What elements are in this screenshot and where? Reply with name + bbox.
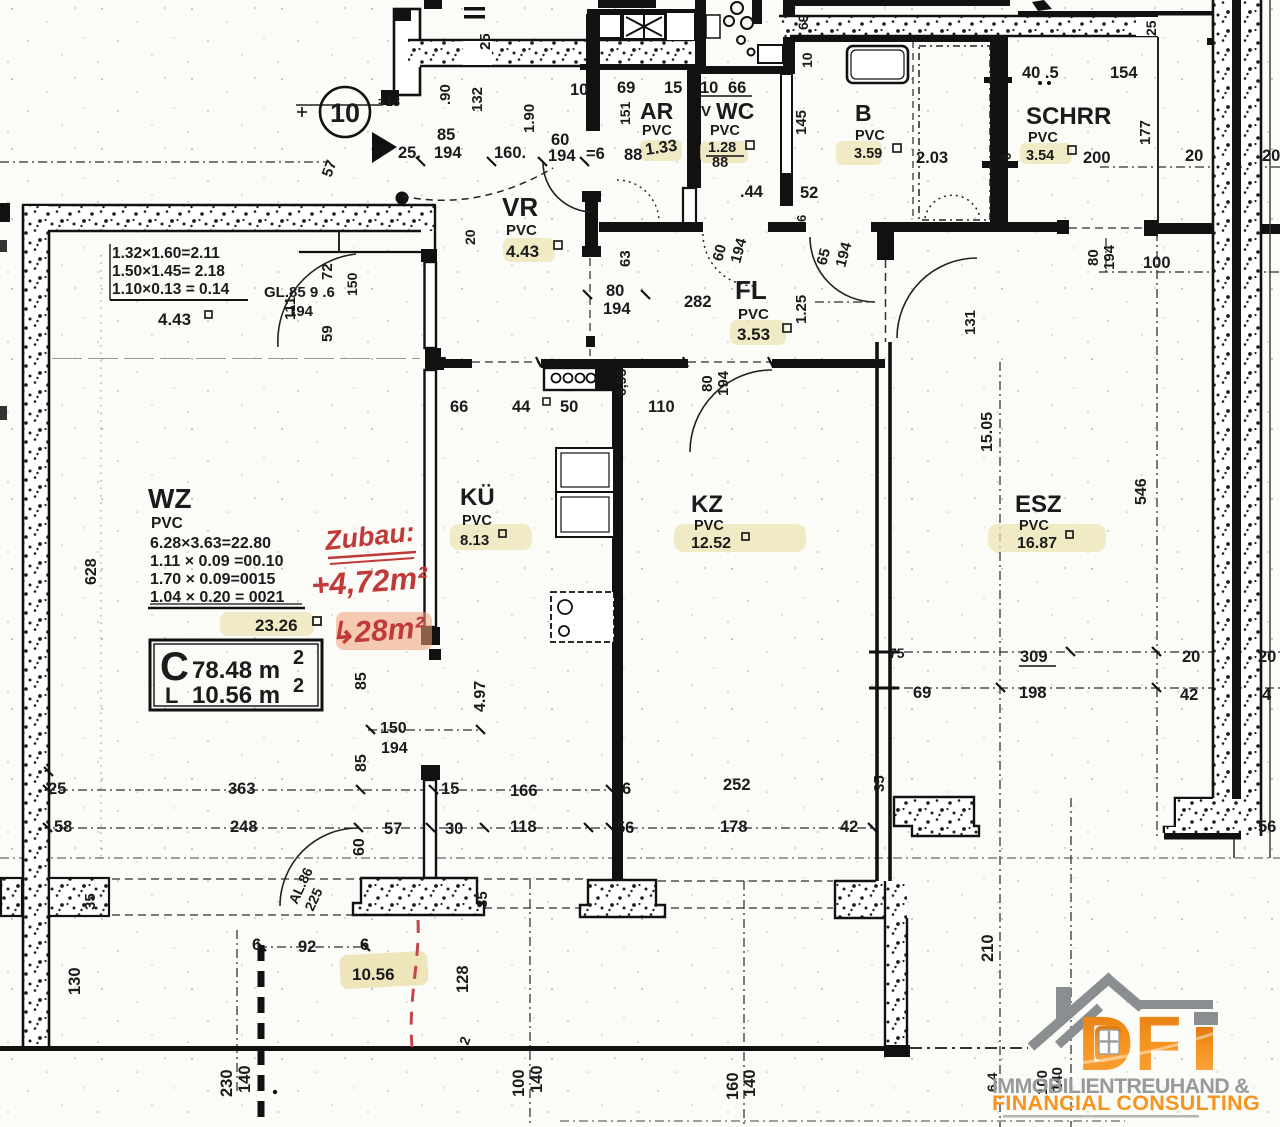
svg-text:3.54: 3.54: [1026, 148, 1054, 164]
wire dim line y652 ESZ: [885, 651, 1280, 653]
svg-text:160: 160: [724, 1072, 742, 1100]
svg-text:100: 100: [510, 1069, 528, 1097]
svg-text:363: 363: [228, 780, 256, 798]
wire dash door KU y362: [472, 361, 540, 363]
svg-text:154: 154: [1110, 64, 1138, 82]
wall tick right column: [1207, 38, 1235, 45]
svg-text:42: 42: [1180, 686, 1198, 704]
svg-text:PVC: PVC: [642, 123, 672, 139]
svg-text:110: 110: [648, 398, 675, 416]
svg-text:AR: AR: [640, 98, 674, 124]
svg-text:44: 44: [512, 398, 531, 416]
svg-text:69: 69: [617, 79, 635, 97]
svg-text:6.28×3.63=22.80: 6.28×3.63=22.80: [150, 535, 271, 552]
label KZ: [691, 491, 749, 552]
svg-text:20: 20: [1262, 147, 1280, 165]
wire open wall dash y915: [112, 908, 833, 915]
svg-text:40 .5: 40 .5: [1022, 64, 1059, 82]
wire vert dim x530: [529, 880, 531, 1127]
wire dash wall B y228: [1069, 227, 1146, 229]
wire dim line y688 ESZ: [885, 687, 1280, 689]
svg-text:1.28: 1.28: [708, 140, 736, 156]
wire dash line y162 left: [0, 161, 330, 163]
svg-text:69: 69: [795, 14, 811, 30]
svg-text:80: 80: [606, 282, 624, 300]
svg-text:PVC: PVC: [1028, 130, 1058, 146]
wall WC right: [783, 0, 795, 74]
svg-text:140: 140: [741, 1069, 759, 1097]
svg-text:4.43: 4.43: [158, 310, 191, 329]
red dashed line bottom: [411, 920, 418, 1047]
svg-text:25: 25: [1143, 20, 1159, 36]
wire dim y302 FL: [815, 301, 873, 303]
door arc WZ: [278, 254, 356, 347]
svg-text:132: 132: [469, 87, 486, 112]
svg-text:25: 25: [48, 780, 66, 798]
door arc WC dotted: [703, 234, 755, 286]
svg-text:23.26: 23.26: [255, 616, 298, 635]
svg-text:2: 2: [293, 647, 304, 669]
bathtub: [847, 46, 908, 83]
svg-text:194: 194: [381, 740, 408, 757]
svg-text:10: 10: [799, 52, 815, 68]
svg-text:16.87: 16.87: [1017, 535, 1057, 552]
svg-text:85: 85: [437, 126, 455, 144]
label ALU 86 225 rot: [285, 865, 325, 914]
svg-text:35: 35: [871, 775, 888, 792]
wire dash x913 B: [912, 41, 914, 221]
label SCHRR: [1022, 64, 1280, 167]
door arc FL-B: [810, 237, 875, 302]
svg-text:6,95: 6,95: [613, 369, 629, 396]
svg-text:20: 20: [1185, 147, 1203, 165]
svg-text:628: 628: [83, 558, 100, 585]
wire dotted x101 WZ: [100, 255, 102, 858]
logo roof: [1031, 976, 1213, 1047]
svg-text:PVC: PVC: [462, 513, 492, 529]
label GL85: [264, 284, 335, 320]
svg-text:85: 85: [353, 672, 370, 690]
door arc WZ south ALU: [280, 828, 358, 906]
wall AR-VR jamb upper: [586, 14, 600, 131]
label AR: [570, 79, 682, 139]
wall left vertical stipple: [23, 205, 49, 1047]
label 10.56: [339, 951, 429, 990]
svg-text:FL: FL: [735, 275, 767, 305]
wall stub right of KZ-ESZ wall: [894, 797, 979, 836]
stove box: [544, 368, 612, 390]
wall line SCHRR right: [1157, 37, 1159, 223]
svg-text:151: 151: [617, 101, 633, 125]
svg-text:25.: 25.: [398, 144, 421, 162]
svg-text:248: 248: [230, 818, 258, 836]
wall WZ-KU hollow wall: [421, 262, 441, 878]
svg-text:↳28m²: ↳28m²: [328, 611, 426, 651]
svg-text:10.56: 10.56: [352, 965, 395, 984]
svg-text:1.11 × 0.09 =00.10: 1.11 × 0.09 =00.10: [150, 553, 284, 570]
wire dim line y790 row: [40, 789, 620, 791]
label block 132x160: [110, 244, 248, 329]
svg-text:PVC: PVC: [738, 306, 769, 323]
logo D window: [1095, 1026, 1122, 1061]
wire dim y947 92: [258, 946, 368, 948]
svg-text:59: 59: [319, 325, 336, 342]
dot mark: [273, 1090, 277, 1094]
wall top band B stipple SCHRR: [779, 15, 1159, 37]
svg-text:PVC: PVC: [506, 222, 537, 239]
svg-text:6: 6: [622, 780, 631, 798]
door arc FL top small: [617, 180, 659, 222]
svg-text:309: 309: [1020, 648, 1048, 666]
svg-text:1.10×0.13 = 0.14: 1.10×0.13 = 0.14: [112, 281, 230, 298]
wall tick B right upper: [984, 77, 1012, 83]
door arc ESZ: [897, 258, 977, 338]
wall bottom long line: [0, 1046, 886, 1051]
svg-text:178: 178: [720, 818, 748, 836]
svg-text:75: 75: [889, 645, 905, 661]
svg-text:3.53: 3.53: [737, 325, 770, 344]
svg-text:PVC: PVC: [151, 515, 183, 532]
svg-text:42: 42: [840, 818, 858, 836]
svg-text:4.97: 4.97: [472, 681, 489, 712]
wall WC-B wall lower: [781, 74, 792, 174]
svg-text:4: 4: [1262, 686, 1272, 704]
svg-text:ESZ: ESZ: [1015, 491, 1062, 518]
svg-text:KÜ: KÜ: [460, 484, 495, 511]
node circled 10: [297, 87, 370, 137]
wall KZ-ESZ hollow: [875, 342, 879, 881]
svg-text:SCHRR: SCHRR: [1026, 103, 1111, 130]
svg-text:118: 118: [510, 818, 537, 836]
svg-text:56: 56: [616, 819, 634, 837]
shower closet dashed: [919, 46, 990, 220]
wire dash line y858 full: [0, 857, 1280, 859]
svg-text:160.: 160.: [494, 144, 526, 162]
wall block on VR-KU dash: [586, 336, 595, 347]
svg-text:VR: VR: [502, 192, 538, 222]
svg-text:30: 30: [445, 820, 463, 838]
svg-text:177: 177: [1137, 120, 1154, 145]
wall pier WZ bottom 1: [353, 878, 484, 915]
svg-text:=6: =6: [586, 145, 605, 163]
svg-text:FINANCIAL CONSULTING: FINANCIAL CONSULTING: [992, 1091, 1260, 1115]
wall corridor segment B main: [871, 222, 1065, 232]
svg-text:150: 150: [380, 720, 407, 737]
svg-text:210: 210: [979, 934, 997, 962]
door hinge dot: [396, 192, 409, 205]
svg-text:198: 198: [1019, 684, 1047, 702]
svg-text:50: 50: [560, 398, 578, 416]
svg-text:88: 88: [712, 155, 728, 171]
wall WZ top band stipple: [22, 205, 436, 252]
result box C 78.48: [150, 640, 322, 710]
wire dash door KZ y362: [688, 361, 770, 363]
svg-text:10: 10: [700, 79, 718, 97]
svg-text:8.13: 8.13: [460, 532, 489, 549]
svg-text:194: 194: [715, 370, 732, 396]
svg-text:15: 15: [664, 79, 682, 97]
svg-text:1.50×1.45= 2.18: 1.50×1.45= 2.18: [112, 263, 225, 280]
wall corridor jamb VR-FL: [582, 191, 601, 257]
top cabinets row block: [580, 9, 695, 70]
wall B room top: [795, 36, 1001, 42]
svg-text:10.56 m: 10.56 m: [192, 682, 280, 709]
svg-text:L: L: [165, 683, 178, 708]
svg-text:35: 35: [474, 891, 491, 908]
svg-text:1.32×1.60=2.11: 1.32×1.60=2.11: [112, 245, 220, 262]
svg-text:88: 88: [624, 146, 642, 164]
wire dim y730 150-194: [368, 729, 482, 731]
svg-text:58: 58: [54, 818, 72, 836]
wall corridor segment A: [599, 222, 703, 232]
svg-text:194: 194: [603, 300, 631, 318]
svg-text:111: 111: [282, 297, 299, 320]
svg-text:80: 80: [699, 375, 716, 392]
wall shower column: [687, 0, 795, 74]
svg-text:1.70 × 0.09=0015: 1.70 × 0.09=0015: [150, 571, 276, 588]
svg-text:72: 72: [319, 263, 336, 280]
svg-text:128: 128: [454, 965, 472, 993]
svg-text:78.48 m: 78.48 m: [192, 657, 280, 684]
svg-text:GL.85 9 .6: GL.85 9 .6: [264, 284, 335, 301]
label row top VR: [398, 126, 678, 165]
svg-text:56: 56: [1258, 818, 1276, 836]
label dims row y828: [54, 818, 1276, 838]
svg-text:546: 546: [1133, 478, 1150, 505]
svg-text:6: 6: [252, 936, 261, 954]
wire vert dim x1000: [999, 362, 1001, 1127]
svg-text:194: 194: [434, 144, 462, 162]
svg-text:166: 166: [510, 782, 538, 800]
svg-text:63: 63: [617, 250, 634, 267]
svg-text:PVC: PVC: [710, 123, 740, 139]
svg-text:35: 35: [82, 893, 99, 910]
wall step piece left of KZ-ESZ wall: [835, 881, 886, 918]
svg-text:60: 60: [351, 838, 368, 856]
svg-text:140: 140: [236, 1065, 254, 1093]
door arc KZ: [690, 370, 772, 452]
svg-text:.44: .44: [740, 183, 764, 201]
wall WZ-VR corner cap: [421, 249, 437, 262]
wire bottom dash y1121: [560, 1120, 1125, 1122]
wire open wall dash y879: [112, 879, 833, 881]
highlight yellow marks: [220, 140, 1106, 636]
label KU: [460, 484, 506, 549]
wall left edge fragments: [0, 203, 10, 222]
label VR: [502, 192, 562, 261]
dim tick marks: [43, 157, 1161, 951]
svg-text:145: 145: [793, 110, 810, 135]
kitchen counter upper: [556, 448, 614, 537]
svg-text:92: 92: [298, 938, 316, 956]
black dashed vertical x261: [258, 945, 265, 1127]
wall tick B right lower: [982, 161, 1018, 168]
logo DFI: [992, 976, 1260, 1118]
svg-text:57: 57: [384, 820, 402, 838]
svg-text:15.05: 15.05: [979, 412, 996, 452]
svg-text:15: 15: [441, 780, 459, 798]
svg-text:131: 131: [962, 310, 979, 335]
label KU dims: [450, 244, 1118, 416]
svg-text:V: V: [701, 103, 711, 120]
label dims row y790: [48, 775, 888, 800]
svg-text:20: 20: [462, 229, 478, 245]
wire line to circle 10: [296, 104, 383, 106]
svg-text:WZ: WZ: [148, 483, 192, 514]
wall KU top: [430, 357, 688, 370]
svg-text:PVC: PVC: [855, 128, 885, 144]
svg-text:66: 66: [450, 398, 468, 416]
svg-text:52: 52: [800, 184, 818, 202]
label ESZ dims: [889, 645, 1276, 704]
wall top edge strip right: [795, 0, 1010, 6]
label ESZ: [1015, 491, 1073, 552]
wall corridor segment B left piece: [768, 222, 806, 232]
wall FL west (AR-WC wall): [687, 66, 701, 188]
label bottom row: [66, 934, 1066, 1100]
svg-text:85: 85: [353, 754, 370, 772]
svg-text:2: 2: [293, 675, 304, 697]
red annotation Zubau: [310, 517, 432, 651]
svg-text:25: 25: [477, 33, 494, 50]
svg-text:2.03: 2.03: [916, 149, 948, 167]
wall cap at 1065: [1057, 220, 1069, 234]
svg-text:4.43: 4.43: [506, 242, 539, 261]
wall mark above cabinets: [598, 0, 656, 8]
kitchen sink unit: [551, 592, 614, 642]
svg-text:3.59: 3.59: [854, 146, 882, 162]
svg-text:PVC: PVC: [1019, 518, 1049, 534]
svg-text:282: 282: [684, 293, 712, 311]
svg-text:10: 10: [570, 81, 588, 99]
svg-text:WC: WC: [716, 98, 754, 124]
wire dash line y162 right SCHRR: [1100, 166, 1280, 168]
marker triangle: [372, 132, 397, 163]
svg-text:194: 194: [548, 147, 576, 165]
door arc VR entrance: [543, 162, 593, 212]
svg-text:12.52: 12.52: [691, 535, 731, 552]
wire dash ESZ door: [885, 260, 887, 342]
svg-text:1.25: 1.25: [793, 295, 810, 324]
svg-text:200: 200: [1083, 149, 1111, 167]
svg-text:PVC: PVC: [694, 518, 724, 534]
svg-text:140: 140: [528, 1065, 546, 1093]
svg-text:150: 150: [344, 272, 360, 296]
wall top band A stipple over VR: [408, 33, 692, 67]
svg-text:10: 10: [330, 98, 360, 128]
wire faint line y358 WZ: [52, 358, 420, 360]
svg-text:6: 6: [999, 153, 1014, 160]
svg-text:130: 130: [66, 967, 84, 995]
wall WC top: [687, 66, 795, 74]
wall top line over SCHRR: [1018, 11, 1212, 16]
wall KZ-ESZ jamb top: [877, 232, 894, 260]
door arc entry dashed: [402, 168, 553, 200]
wall WZ bottom left cross stub: [1, 878, 109, 916]
label FL: [603, 236, 810, 344]
label B: [854, 100, 948, 167]
wire vert dim x1071: [1070, 798, 1072, 1127]
svg-text:20: 20: [1182, 648, 1200, 666]
svg-text:KZ: KZ: [691, 491, 723, 518]
label WZ block: [148, 483, 321, 635]
wall right outer column: [1164, 0, 1270, 858]
svg-text:20: 20: [1258, 648, 1276, 666]
svg-text:100: 100: [1143, 254, 1171, 272]
svg-text:6: 6: [360, 936, 369, 954]
svg-text:230: 230: [218, 1069, 236, 1097]
top-left hollow wall column: [381, 0, 485, 105]
wall B right black: [990, 36, 1008, 222]
wire vert dim x744: [743, 881, 745, 1127]
svg-text:66: 66: [728, 79, 746, 97]
wire dim line y828 row: [40, 827, 872, 829]
svg-text:194: 194: [1101, 244, 1118, 270]
wall pier KZ bottom jamb: [580, 880, 665, 917]
wire vert dim x237: [236, 930, 238, 1095]
svg-text:6: 6: [794, 215, 809, 222]
wire vert dim x1157: [1156, 232, 1158, 838]
svg-text:=13: =13: [378, 94, 400, 109]
wall KU-KZ vertical black: [612, 362, 623, 879]
wall FL west hollow lower: [683, 188, 696, 224]
wire dash x590 VR-KU door: [589, 258, 591, 356]
wall lower stipple band below KZ-ESZ: [884, 881, 910, 1057]
svg-text:1.90: 1.90: [521, 104, 538, 133]
svg-text:80: 80: [1085, 249, 1102, 266]
svg-text:B: B: [855, 100, 872, 126]
wall KZ top: [772, 359, 885, 368]
svg-text:.90: .90: [437, 84, 454, 105]
svg-text:252: 252: [723, 776, 751, 794]
svg-text:69: 69: [913, 684, 931, 702]
label WZ mid dims: [351, 672, 489, 856]
label WC: [700, 79, 754, 171]
